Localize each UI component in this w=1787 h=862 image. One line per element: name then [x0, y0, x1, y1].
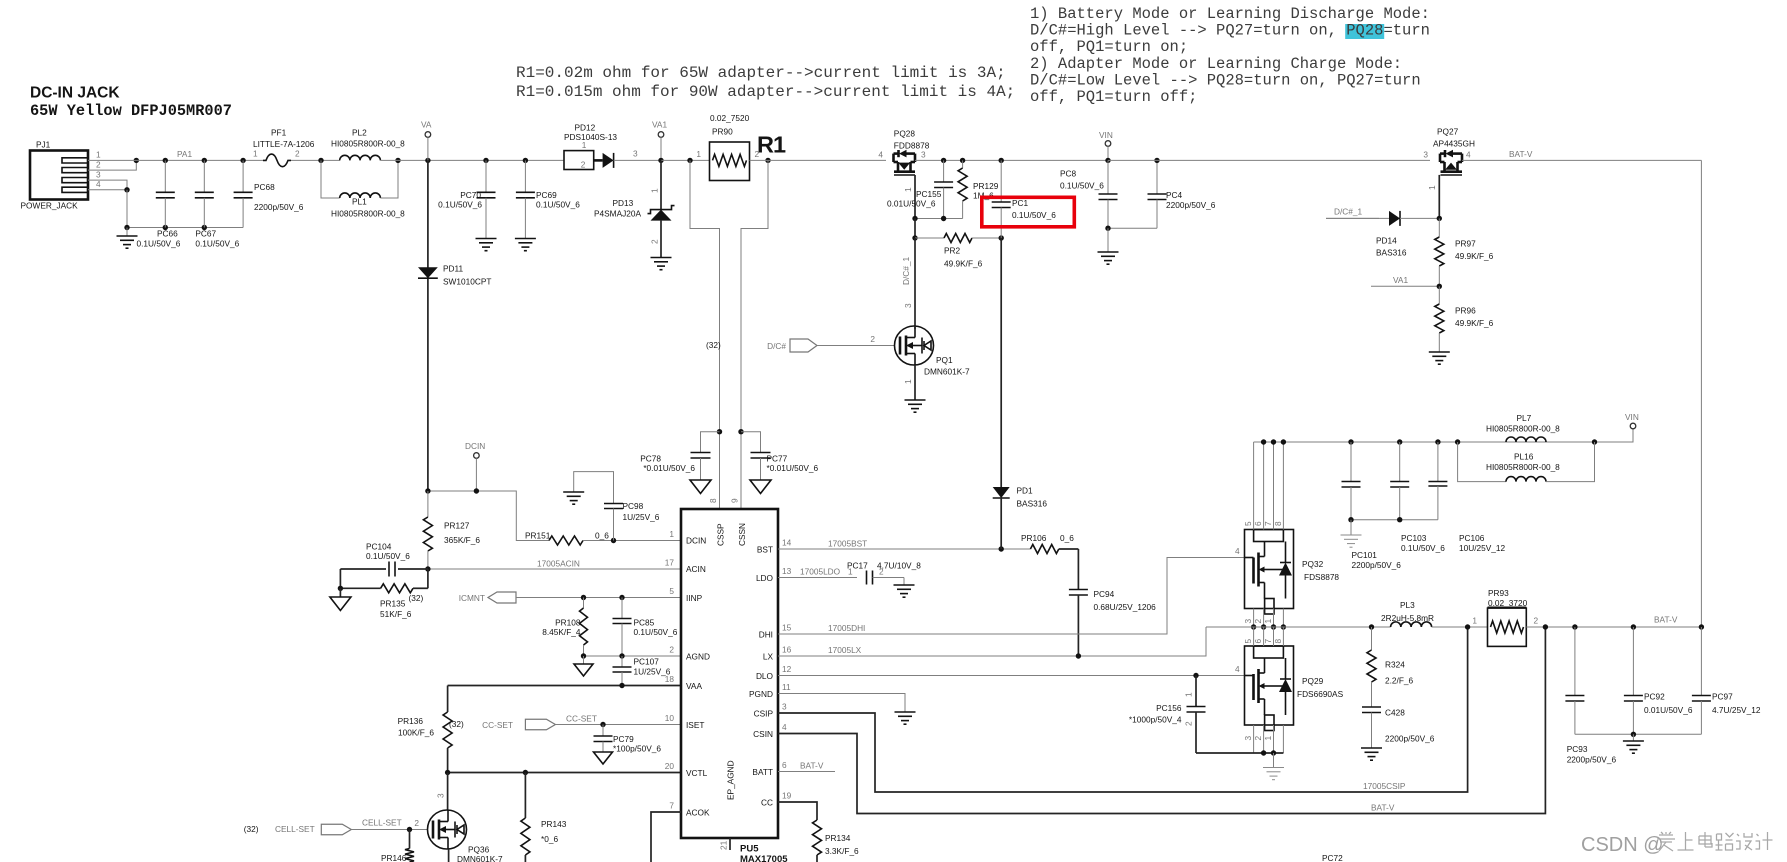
capacitor PC68 [234, 160, 304, 227]
node VA1 [652, 120, 667, 164]
svg-text:8: 8 [1273, 639, 1283, 644]
svg-text:0_6: 0_6 [595, 531, 609, 541]
capacitor PC69 [515, 160, 580, 250]
IC EP_AGND pad [719, 760, 736, 850]
svg-text:DMN601K-7: DMN601K-7 [924, 367, 970, 377]
resistor PR136 [398, 686, 464, 773]
resistor PR2 [915, 234, 1001, 269]
svg-text:PC72: PC72 [1322, 853, 1343, 862]
wire PGND net [778, 694, 905, 713]
svg-text:CSIP: CSIP [754, 709, 774, 719]
note R1 current limit text [516, 64, 1015, 101]
svg-text:D/C#_1: D/C#_1 [1334, 207, 1363, 217]
resistor PR127 [423, 491, 480, 569]
svg-text:13: 13 [782, 566, 792, 576]
diode PD12 schottky [564, 123, 661, 170]
wire PQ32 source stubs [1254, 609, 1284, 628]
wire LX net [778, 627, 1206, 656]
svg-text:PR146: PR146 [381, 853, 407, 862]
svg-text:PL2: PL2 [352, 128, 367, 138]
flag CELL-SET [244, 818, 402, 835]
resistor PR97 [1435, 218, 1494, 286]
svg-text:HI0805R800R-00_8: HI0805R800R-00_8 [1486, 462, 1560, 472]
svg-text:100K/F_6: 100K/F_6 [398, 728, 434, 738]
svg-text:0.1U/50V_6: 0.1U/50V_6 [1012, 210, 1056, 220]
ground PQ1 [905, 400, 926, 412]
svg-text:17005BST: 17005BST [828, 539, 867, 549]
resistor PR146 [381, 830, 414, 862]
svg-text:2) Adapter Mode or Learning Ch: 2) Adapter Mode or Learning Charge Mode: [1030, 55, 1402, 73]
svg-text:PC156: PC156 [1156, 703, 1182, 713]
svg-text:0.1U/50V_6: 0.1U/50V_6 [634, 627, 678, 637]
resistor PR134 [778, 802, 859, 862]
svg-text:7: 7 [1263, 521, 1273, 526]
junction rail caps [941, 158, 1004, 163]
wire PC104 left drop [339, 569, 341, 588]
label (32) cssp [706, 340, 721, 350]
capacitor PC66 [137, 160, 181, 248]
svg-text:2: 2 [581, 160, 586, 170]
svg-text:DHI: DHI [759, 630, 773, 640]
svg-text:PR90: PR90 [712, 127, 733, 137]
svg-text:PC94: PC94 [1094, 589, 1115, 599]
ground ACIN divider arrow [330, 588, 351, 610]
inductor PL16 parallel [1458, 442, 1595, 482]
capacitor PC98 [563, 472, 660, 541]
net label D/C#_1 vertical [901, 256, 911, 285]
svg-text:CC-SET: CC-SET [566, 714, 597, 724]
svg-text:(32): (32) [449, 719, 464, 729]
svg-text:VA: VA [421, 120, 432, 130]
wire PQ1 drain up [903, 303, 915, 329]
svg-text:4: 4 [1235, 546, 1240, 556]
junction AGND [581, 653, 625, 658]
node VA [421, 120, 432, 161]
svg-text:HI0805R800R-00_8: HI0805R800R-00_8 [331, 209, 405, 219]
svg-text:2200p/50V_6: 2200p/50V_6 [1166, 200, 1216, 210]
junction PC98 bottom [611, 538, 616, 543]
svg-text:HI0805R800R-00_8: HI0805R800R-00_8 [1486, 424, 1560, 434]
svg-text:2200p/50V_6: 2200p/50V_6 [254, 202, 304, 212]
wire rail VA1 to R1 [661, 159, 710, 161]
wire LDO net [778, 567, 857, 578]
svg-text:0.01U/50V_6: 0.01U/50V_6 [887, 199, 936, 209]
resistor PR108 [542, 598, 587, 657]
wire PQ32 drain stubs to VIN bus [1254, 442, 1284, 530]
svg-text:PL7: PL7 [1517, 413, 1532, 423]
svg-text:BAT-V: BAT-V [1371, 803, 1395, 813]
svg-text:1: 1 [253, 149, 258, 159]
wire rail PQ28 to VIN [915, 159, 1108, 161]
svg-text:20: 20 [665, 761, 675, 771]
transistor PQ1 DMN601K-7 [895, 326, 971, 377]
wire PJ1 pin4 to ground rail [88, 189, 127, 191]
svg-text:PC79: PC79 [613, 734, 634, 744]
svg-text:*0_6: *0_6 [541, 834, 558, 844]
wire BAT-V row [1526, 615, 1701, 628]
junction PC4 rail [1154, 158, 1159, 163]
svg-text:3: 3 [1243, 619, 1253, 624]
svg-text:*0.01U/50V_6: *0.01U/50V_6 [767, 463, 819, 473]
wire PQ28 gate drop [903, 175, 915, 219]
svg-text:*100p/50V_6: *100p/50V_6 [613, 744, 661, 754]
svg-text:3: 3 [436, 793, 446, 798]
wire DCIN row [428, 491, 549, 541]
svg-text:PR96: PR96 [1455, 306, 1476, 316]
svg-text:PJ1: PJ1 [36, 140, 51, 150]
svg-text:PQ28: PQ28 [894, 129, 916, 139]
capacitor PC85 [613, 598, 678, 657]
highlight box PC1 [982, 197, 1075, 227]
capacitor PC103 [1390, 442, 1445, 553]
junction BST PD1 [999, 546, 1004, 551]
resistor PR90 (R1 sense) [696, 113, 786, 181]
svg-text:2: 2 [414, 818, 419, 828]
svg-text:365K/F_6: 365K/F_6 [444, 535, 480, 545]
svg-text:PC17: PC17 [847, 561, 868, 571]
capacitor PC67 [195, 160, 240, 248]
capacitor PC106 [1428, 442, 1505, 553]
svg-text:BAT-V: BAT-V [1509, 149, 1533, 159]
pin numbers PJ1 1-4 [96, 150, 101, 190]
capacitor PC8 [1060, 160, 1118, 228]
wire CELL-SET to gate [351, 818, 428, 830]
svg-text:4.7U/25V_12: 4.7U/25V_12 [1712, 705, 1761, 715]
transistor PQ36 DMN601K-7 [428, 810, 504, 862]
svg-text:PR136: PR136 [398, 716, 424, 726]
svg-text:3: 3 [903, 303, 913, 308]
svg-text:PC104: PC104 [366, 542, 392, 552]
svg-text:VIN: VIN [1099, 130, 1113, 140]
svg-text:1: 1 [696, 149, 701, 159]
svg-text:16: 16 [782, 645, 792, 655]
svg-text:49.9K/F_6: 49.9K/F_6 [1455, 251, 1494, 261]
fuse PF1 [253, 128, 315, 167]
svg-text:CC-SET: CC-SET [482, 720, 513, 730]
flag D/C# [767, 339, 817, 352]
capacitor PC92 [1624, 627, 1693, 734]
svg-text:MAX17005: MAX17005 [740, 854, 788, 862]
svg-text:1) Battery Mode or Learning Di: 1) Battery Mode or Learning Discharge Mo… [1030, 5, 1430, 23]
svg-text:PR93: PR93 [1488, 588, 1509, 598]
svg-text:FDS8878: FDS8878 [1304, 572, 1339, 582]
svg-text:LITTLE-7A-1206: LITTLE-7A-1206 [253, 139, 315, 149]
flag CC-SET [482, 719, 555, 730]
svg-text:D/C#=Low Level --> PQ28=turn o: D/C#=Low Level --> PQ28=turn on, PQ27=tu… [1030, 71, 1421, 89]
wire PQ29 drain stubs [1254, 627, 1284, 646]
svg-text:14: 14 [782, 538, 792, 548]
IC right pin names [749, 545, 774, 808]
svg-text:1: 1 [903, 187, 913, 192]
wire PQ27 gate drop [1427, 175, 1439, 219]
svg-text:ICMNT: ICMNT [459, 593, 485, 603]
svg-text:7: 7 [669, 801, 674, 811]
svg-text:3: 3 [921, 150, 926, 160]
junction pin4 [124, 187, 129, 192]
svg-text:2: 2 [1184, 721, 1194, 726]
svg-text:2: 2 [669, 645, 674, 655]
svg-text:VA1: VA1 [1393, 275, 1408, 285]
svg-text:CSIN: CSIN [753, 729, 773, 739]
junction VCTL [445, 770, 528, 775]
IC right pin numbers [782, 538, 792, 801]
svg-text:BAS316: BAS316 [1017, 499, 1048, 509]
svg-text:0.68U/25V_1206: 0.68U/25V_1206 [1094, 602, 1157, 612]
svg-text:4.7U/10V_8: 4.7U/10V_8 [877, 561, 921, 571]
capacitor PC107 [613, 656, 671, 686]
svg-text:PC97: PC97 [1712, 692, 1733, 702]
svg-text:PGND: PGND [749, 689, 773, 699]
svg-text:CSSN: CSSN [737, 523, 747, 546]
svg-text:1: 1 [1263, 619, 1273, 624]
svg-text:*1000p/50V_4: *1000p/50V_4 [1129, 715, 1182, 725]
junction PC77 tap [738, 429, 743, 434]
svg-text:LX: LX [763, 652, 774, 662]
diode PD14 [1326, 207, 1439, 258]
svg-text:AP4435GH: AP4435GH [1433, 139, 1475, 149]
svg-text:PL3: PL3 [1400, 600, 1415, 610]
resistor PR143 [521, 773, 567, 862]
svg-text:C428: C428 [1385, 708, 1405, 718]
junction ISET PC79 [600, 722, 605, 727]
svg-text:PC85: PC85 [634, 618, 655, 628]
svg-text:2: 2 [870, 334, 875, 344]
capacitor PC4 [1148, 160, 1216, 228]
op-amp U? main IC PU5 MAX17005 box [681, 509, 788, 862]
ground PC8 [1098, 228, 1119, 264]
net label PA1 [177, 149, 192, 159]
svg-text:5: 5 [1243, 639, 1253, 644]
net stub VA1 right [1371, 275, 1439, 286]
svg-text:PQ32: PQ32 [1302, 559, 1324, 569]
svg-text:D/C#_1: D/C#_1 [901, 256, 911, 285]
wire PC156 gnd row [1196, 750, 1283, 755]
resistor R324 [1367, 627, 1414, 707]
resistor PR106 [1021, 533, 1078, 554]
wire CSIN net [778, 627, 1545, 814]
svg-text:0.1U/50V_6: 0.1U/50V_6 [1060, 181, 1104, 191]
svg-text:PD13: PD13 [613, 198, 634, 208]
wire BATT stub [778, 761, 835, 772]
ground PC101 [1341, 520, 1362, 548]
wire DC# to PQ1 drain [914, 238, 916, 326]
svg-text:PC103: PC103 [1401, 533, 1427, 543]
resistor PR151 [525, 531, 681, 546]
svg-text:2: 2 [650, 239, 660, 244]
svg-text:EP_AGND: EP_AGND [726, 760, 736, 800]
svg-text:PR108: PR108 [555, 618, 581, 628]
svg-text:PC78: PC78 [640, 454, 661, 464]
svg-text:R1=0.02m ohm for 65W adapter--: R1=0.02m ohm for 65W adapter-->current l… [516, 64, 1006, 82]
ground PQ29 source [1263, 753, 1284, 780]
svg-text:2: 2 [1253, 736, 1263, 741]
svg-text:PQ1: PQ1 [936, 355, 953, 365]
wire rail fuse-PL2 [291, 159, 340, 161]
node VIN top [1099, 130, 1113, 163]
capacitor PC79 [594, 725, 662, 765]
capacitor PC156 [1129, 676, 1206, 754]
svg-text:SW1010CPT: SW1010CPT [443, 277, 491, 287]
svg-text:17005DHI: 17005DHI [828, 623, 865, 633]
diode PD11 [418, 160, 491, 491]
wire DLO net [778, 664, 1245, 676]
junction PD14 gate [1437, 216, 1442, 221]
wire main rail PA1 [88, 159, 263, 161]
svg-text:8: 8 [1273, 521, 1283, 526]
svg-text:2.2/F_6: 2.2/F_6 [1385, 676, 1414, 686]
wire PQ1 source down [903, 365, 915, 400]
svg-text:CC: CC [761, 798, 773, 808]
svg-text:5: 5 [1243, 521, 1253, 526]
wire VIN bus [1254, 429, 1633, 442]
svg-text:PC93: PC93 [1567, 744, 1588, 754]
svg-text:DC-IN JACK: DC-IN JACK [30, 85, 120, 102]
svg-text:10U/25V_12: 10U/25V_12 [1459, 543, 1506, 553]
svg-text:8: 8 [708, 498, 718, 503]
inductor PL2 [331, 128, 405, 161]
svg-text:17005CSIP: 17005CSIP [1363, 781, 1406, 791]
junction BAT-V row [1543, 624, 1704, 629]
wire BAT-V right vertical [1700, 160, 1702, 627]
wire ISET row [555, 714, 681, 725]
svg-text:PR135: PR135 [380, 599, 406, 609]
wire BST net [778, 539, 1030, 550]
svg-text:PR127: PR127 [444, 521, 470, 531]
svg-text:DMN601K-7: DMN601K-7 [457, 854, 503, 862]
svg-text:0.1U/50V_6: 0.1U/50V_6 [1401, 543, 1445, 553]
svg-text:BAS316: BAS316 [1376, 248, 1407, 258]
IC left pin numbers [665, 529, 675, 811]
svg-text:PR106: PR106 [1021, 533, 1047, 543]
transistor PQ27 AP4435GH [1423, 127, 1475, 176]
svg-text:3: 3 [782, 702, 787, 712]
svg-text:10: 10 [665, 713, 675, 723]
svg-text:0_6: 0_6 [1060, 533, 1074, 543]
svg-text:17: 17 [665, 558, 675, 568]
junction R1 pin1 [687, 158, 692, 163]
wire AGND row [584, 655, 682, 657]
svg-text:1: 1 [650, 188, 660, 193]
svg-text:DLO: DLO [756, 671, 774, 681]
capacitor PC17 series [847, 561, 921, 598]
svg-text:1: 1 [1184, 692, 1194, 697]
svg-text:4: 4 [878, 150, 883, 160]
inductor PL3 [1381, 600, 1434, 627]
svg-text:1: 1 [669, 529, 674, 539]
junction PR146 tap [407, 827, 412, 832]
transistor PQ28 FDD8878 [878, 129, 929, 176]
wire switch row to PL3 [1206, 626, 1391, 628]
junction CSIP tap [1465, 624, 1470, 629]
wire PQ29 source stubs [1254, 725, 1284, 753]
svg-text:PU5: PU5 [740, 844, 759, 855]
svg-text:HI0805R800R-00_8: HI0805R800R-00_8 [331, 139, 405, 149]
wire CSIP net [778, 627, 1468, 792]
svg-text:0.1U/50V_6: 0.1U/50V_6 [195, 239, 239, 249]
svg-text:BAT-V: BAT-V [1654, 615, 1678, 625]
svg-text:PD11: PD11 [443, 264, 464, 274]
svg-text:PC4: PC4 [1166, 190, 1183, 200]
svg-text:6: 6 [1253, 521, 1263, 526]
svg-text:1: 1 [1472, 616, 1477, 626]
svg-text:3.3K/F_6: 3.3K/F_6 [825, 846, 859, 856]
junction VA [425, 158, 528, 163]
svg-text:PF1: PF1 [271, 128, 287, 138]
capacitor PC94 [1069, 549, 1156, 656]
resistor PR93 sense [1488, 588, 1539, 646]
svg-text:PD1: PD1 [1017, 486, 1034, 496]
resistor PR96 [1435, 286, 1494, 352]
svg-text:PR2: PR2 [944, 246, 961, 256]
ground BAT-V caps [1623, 734, 1644, 753]
wire D/C# to PQ1 gate [817, 334, 895, 346]
svg-text:1U/25V_6: 1U/25V_6 [623, 512, 660, 522]
junction switch node [1251, 624, 1286, 629]
svg-text:PR143: PR143 [541, 819, 567, 829]
svg-text:4: 4 [782, 722, 787, 732]
svg-text:PDS1040S-13: PDS1040S-13 [564, 132, 617, 142]
svg-text:PD12: PD12 [575, 123, 596, 133]
connector PJ1 POWER_JACK [21, 140, 89, 211]
svg-text:(32): (32) [409, 593, 424, 603]
svg-text:3: 3 [96, 169, 101, 179]
svg-text:PC107: PC107 [634, 657, 660, 667]
diode PD1 BAS316 [993, 486, 1048, 550]
svg-text:51K/F_6: 51K/F_6 [380, 609, 412, 619]
svg-text:17005ACIN: 17005ACIN [537, 559, 580, 569]
svg-text:65W Yellow DFPJ05MR007: 65W Yellow DFPJ05MR007 [30, 102, 232, 120]
svg-text:2200p/50V_6: 2200p/50V_6 [1567, 755, 1617, 765]
svg-text:(32): (32) [706, 340, 721, 350]
svg-text:R1=0.015m ohm for 90W adapter-: R1=0.015m ohm for 90W adapter-->current … [516, 83, 1015, 101]
wire rail R1 to PQ28 [750, 159, 887, 161]
svg-text:6: 6 [1253, 639, 1263, 644]
svg-text:PC77: PC77 [767, 454, 788, 464]
svg-text:VIN: VIN [1625, 412, 1639, 422]
svg-text:ACIN: ACIN [686, 564, 706, 574]
svg-text:3: 3 [1243, 736, 1253, 741]
svg-text:PC1: PC1 [1012, 198, 1029, 208]
svg-text:2R2uH-5.8mR: 2R2uH-5.8mR [1381, 613, 1434, 623]
svg-text:PQ36: PQ36 [468, 845, 490, 855]
junction DCIN row [425, 488, 479, 493]
junction ACIN [425, 566, 430, 571]
junction PL2 right [395, 158, 400, 163]
wire rail to PD12 [380, 159, 564, 161]
capacitor PC70 [438, 160, 496, 250]
wire cap bottom rail [127, 227, 243, 229]
svg-text:21: 21 [719, 840, 729, 850]
capacitor PC1 (highlighted) [992, 160, 1057, 238]
svg-text:VA1: VA1 [652, 120, 667, 130]
transistor PQ29 FDS6690AS [1243, 639, 1343, 741]
svg-text:PL16: PL16 [1514, 452, 1534, 462]
svg-text:9: 9 [730, 498, 740, 503]
wire R1 pin1 to CSSP [690, 160, 720, 509]
svg-text:off, PQ1=turn on;: off, PQ1=turn on; [1030, 38, 1188, 56]
junction PR135 left [338, 586, 343, 591]
wire batv cap gnd row [1575, 732, 1702, 737]
svg-text:AGND: AGND [686, 652, 710, 662]
svg-text:2: 2 [1253, 619, 1263, 624]
junction bottom rail [124, 225, 207, 230]
junction R324 [1369, 624, 1374, 629]
svg-text:VCTL: VCTL [686, 768, 708, 778]
svg-text:BATT: BATT [752, 767, 773, 777]
svg-text:ISET: ISET [686, 720, 704, 730]
svg-text:ACOK: ACOK [686, 808, 710, 818]
svg-text:VAA: VAA [686, 681, 702, 691]
